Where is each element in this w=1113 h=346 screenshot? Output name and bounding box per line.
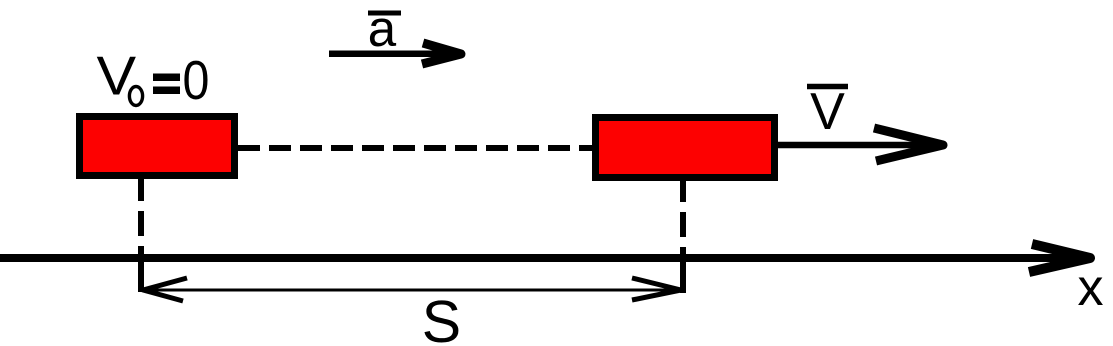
svg-text:x: x <box>1077 259 1103 317</box>
svg-text:0: 0 <box>183 49 210 111</box>
svg-text:a: a <box>368 0 397 57</box>
svg-text:V: V <box>810 83 845 141</box>
svg-text:S: S <box>422 289 461 346</box>
